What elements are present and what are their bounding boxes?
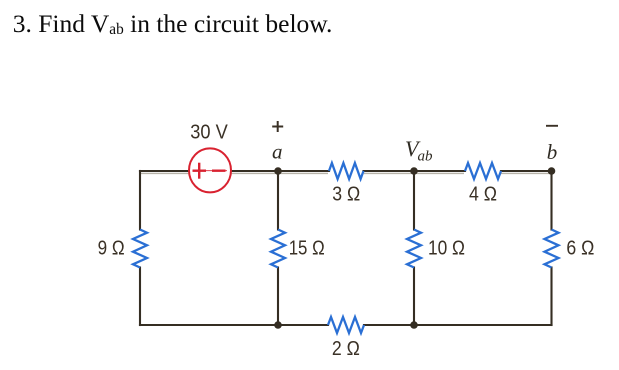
svg-text:3 Ω: 3 Ω <box>332 183 360 206</box>
svg-text:30 V: 30 V <box>190 121 228 144</box>
svg-text:a: a <box>272 140 283 164</box>
svg-text:4 Ω: 4 Ω <box>469 183 497 206</box>
svg-text:15 Ω: 15 Ω <box>289 236 325 259</box>
svg-text:2 Ω: 2 Ω <box>332 337 360 360</box>
svg-text:10 Ω: 10 Ω <box>428 236 465 259</box>
svg-text:ab: ab <box>418 149 434 165</box>
svg-text:9 Ω: 9 Ω <box>98 236 125 259</box>
svg-text:6 Ω: 6 Ω <box>566 236 594 259</box>
svg-text:b: b <box>547 140 558 164</box>
